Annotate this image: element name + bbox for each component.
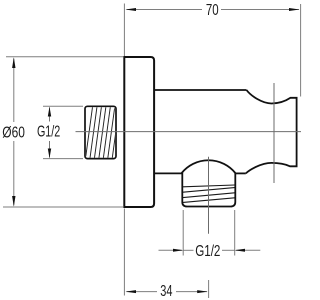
dim Ø60 top extension line [6, 56, 123, 58]
inlet thread hatch lines [86, 107, 120, 159]
dim G1/2 bottom left extension line [182, 210, 184, 256]
dim 34 line left segment [127, 291, 158, 293]
holder cradle vertical center mark [273, 83, 275, 183]
dim 34 arrow left [125, 290, 136, 293]
dim 34 left extension line [123, 209, 125, 296]
wall flange plate [124, 57, 154, 207]
svg-text:Ø60: Ø60 [2, 125, 25, 142]
dim G1/2 bottom right extension line [234, 210, 236, 256]
dim Ø60 arrow down [12, 196, 15, 207]
dim Ø60 arrow up [12, 57, 15, 68]
dim 70 right extension line [300, 4, 302, 97]
dim G1/2 bottom arrow right-pointing [173, 249, 184, 252]
holder head profile (cradle dips, lip ledges and right end cap) [246, 90, 297, 173]
dim G1/2 bottom arrow left-pointing [234, 249, 245, 252]
dim 70 left extension line [123, 4, 125, 57]
body tube bottom edge right segment [235, 172, 246, 174]
dim G1/2 left arrow up [48, 107, 51, 117]
dim 34 right extension line [208, 280, 210, 298]
svg-text:G1/2: G1/2 [195, 243, 220, 260]
dim G1/2 left bottom extension line [43, 158, 83, 160]
dim G1/2 left line upper segment [49, 108, 51, 122]
svg-text:70: 70 [206, 2, 219, 19]
outlet nut outline [182, 173, 235, 207]
body tube top edge [155, 89, 247, 91]
svg-text:34: 34 [160, 283, 172, 300]
svg-text:G1/2: G1/2 [37, 124, 60, 141]
dim G1/2 bottom inner stub right [222, 249, 234, 251]
dim 70 line left segment [127, 9, 203, 11]
dim G1/2 bottom line right outside segment [236, 249, 260, 251]
dim 70 arrow right [289, 8, 300, 11]
outlet dome boss [182, 160, 236, 173]
horizontal centerline [76, 131, 302, 133]
dim Ø60 line lower segment [13, 141, 15, 206]
body tube bottom edge left segment [155, 172, 182, 174]
outlet nut thread hatch lines [183, 185, 235, 202]
dim G1/2 left line lower segment [49, 141, 51, 158]
dim Ø60 bottom extension line [3, 206, 123, 208]
dim 34 line right segment [176, 291, 207, 293]
dim 70 line right segment [221, 9, 299, 11]
dim 34 arrow right [197, 290, 208, 293]
dim G1/2 left top extension line [43, 105, 83, 107]
dim G1/2 bottom inner stub left [184, 249, 194, 251]
dim G1/2 left arrow down [48, 149, 51, 159]
inlet thread G1/2 outline (left connector) [85, 106, 116, 158]
dim 70 arrow left [125, 8, 136, 11]
outlet vertical centerline [208, 157, 210, 234]
dim Ø60 line upper segment [13, 59, 15, 123]
dim G1/2 bottom line left outside segment [159, 249, 183, 251]
